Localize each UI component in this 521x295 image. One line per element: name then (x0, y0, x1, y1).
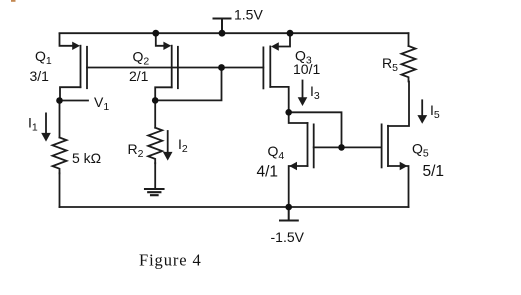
svg-text:5 kΩ: 5 kΩ (72, 150, 101, 166)
svg-text:1.5V: 1.5V (234, 7, 263, 23)
svg-text:5/1: 5/1 (423, 163, 445, 180)
svg-text:-1.5V: -1.5V (271, 229, 305, 245)
svg-text:10/1: 10/1 (293, 61, 320, 77)
svg-text:Figure 4: Figure 4 (139, 251, 202, 270)
svg-text:3/1: 3/1 (30, 68, 50, 84)
svg-text:2/1: 2/1 (129, 68, 149, 84)
svg-text:4/1: 4/1 (257, 164, 279, 181)
